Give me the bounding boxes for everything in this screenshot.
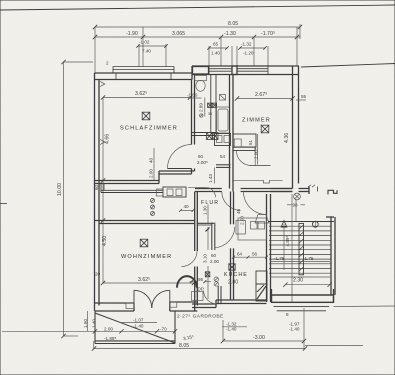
svg-text:-1.40: -1.40 <box>289 327 300 332</box>
svg-text:20: 20 <box>95 272 101 277</box>
svg-text:-1.50: -1.50 <box>187 93 198 98</box>
svg-text:-1.90: -1.90 <box>126 31 138 37</box>
svg-text:2.80: 2.80 <box>228 280 238 286</box>
svg-text:2.00⁵: 2.00⁵ <box>197 160 208 165</box>
svg-text:2.00⁵: 2.00⁵ <box>254 148 259 159</box>
svg-text:4.36: 4.36 <box>284 133 290 143</box>
svg-text:10.00: 10.00 <box>57 183 63 196</box>
svg-text:-1.70⁵: -1.70⁵ <box>261 31 275 37</box>
svg-text:46: 46 <box>236 208 241 214</box>
svg-text:2: 2 <box>106 61 109 66</box>
svg-text:3.62⁵: 3.62⁵ <box>138 277 150 283</box>
svg-text:-70: -70 <box>160 327 167 332</box>
svg-text:2.00: 2.00 <box>210 259 219 264</box>
svg-text:1.40: 1.40 <box>211 51 220 56</box>
svg-text:DP: DP <box>198 287 204 292</box>
svg-text:60: 60 <box>211 253 217 258</box>
svg-text:95: 95 <box>198 277 204 282</box>
svg-text:3.065: 3.065 <box>172 31 185 37</box>
svg-text:2.67³: 2.67³ <box>255 92 267 98</box>
svg-text:-1.40: -1.40 <box>133 324 144 329</box>
svg-text:1.40: 1.40 <box>92 319 97 328</box>
svg-text:51: 51 <box>248 139 253 145</box>
svg-text:-1.89⁵: -1.89⁵ <box>104 336 116 341</box>
svg-text:-1.02: -1.02 <box>139 40 150 45</box>
svg-text:WOHNZIMMER: WOHNZIMMER <box>121 254 172 260</box>
svg-text:2.00: 2.00 <box>104 327 113 332</box>
svg-text:3.15⁵: 3.15⁵ <box>183 334 195 341</box>
svg-text:1.30: 1.30 <box>203 206 208 215</box>
svg-text:-1.75: -1.75 <box>274 256 285 261</box>
svg-text:60: 60 <box>198 154 204 159</box>
svg-text:4.50: 4.50 <box>102 236 108 246</box>
svg-text:KÜCHE: KÜCHE <box>224 271 248 278</box>
svg-text:40: 40 <box>184 204 190 209</box>
svg-text:2.00: 2.00 <box>149 169 154 178</box>
svg-text:8: 8 <box>286 312 289 317</box>
svg-text:8.05: 8.05 <box>179 343 189 349</box>
svg-text:-3.00: -3.00 <box>253 335 265 341</box>
svg-text:60: 60 <box>94 184 99 190</box>
svg-text:4.66: 4.66 <box>105 134 111 144</box>
svg-text:-1.07: -1.07 <box>133 318 144 323</box>
svg-text:56: 56 <box>252 252 258 257</box>
svg-text:2·27⁵ GARDROBE: 2·27⁵ GARDROBE <box>177 314 224 320</box>
svg-text:3.10: 3.10 <box>203 254 208 263</box>
svg-text:3.62⁵: 3.62⁵ <box>135 91 147 97</box>
svg-text:1.50: 1.50 <box>83 319 88 328</box>
svg-text:-1.30: -1.30 <box>224 31 236 37</box>
svg-text:54: 54 <box>220 154 226 159</box>
svg-text:1.43: 1.43 <box>208 174 213 183</box>
svg-text:8.05: 8.05 <box>228 21 238 27</box>
svg-text:98: 98 <box>293 203 299 208</box>
svg-text:-1.40: -1.40 <box>226 327 237 332</box>
svg-text:2.30: 2.30 <box>293 278 303 284</box>
svg-text:40: 40 <box>149 157 154 163</box>
svg-text:7.40: 7.40 <box>142 49 151 54</box>
svg-text:FLUR: FLUR <box>201 200 219 206</box>
svg-text:-1.32: -1.32 <box>241 42 252 47</box>
svg-text:55: 55 <box>301 94 307 99</box>
svg-text:64: 64 <box>237 252 243 257</box>
svg-text:SCHLAFZIMMER: SCHLAFZIMMER <box>120 126 178 132</box>
svg-text:-1.20: -1.20 <box>243 51 254 56</box>
svg-text:-1.75: -1.75 <box>303 256 314 261</box>
svg-text:65: 65 <box>213 42 219 47</box>
svg-text:ZIMMER: ZIMMER <box>242 118 271 124</box>
svg-text:4.59⁵: 4.59⁵ <box>285 236 290 247</box>
svg-text:2.89: 2.89 <box>199 103 204 112</box>
svg-text:30: 30 <box>208 112 212 116</box>
